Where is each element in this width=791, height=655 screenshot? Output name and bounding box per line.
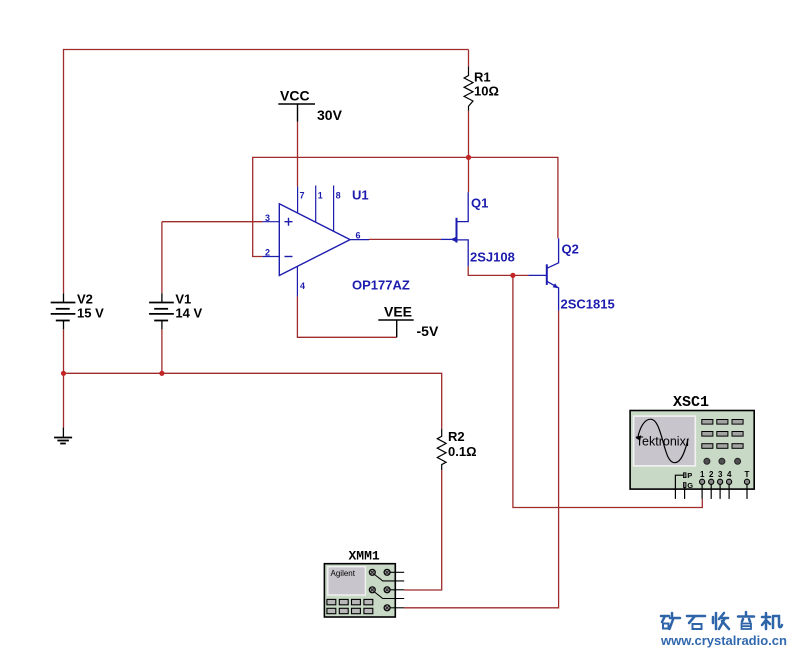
svg-text:XMM1: XMM1 [349, 549, 380, 564]
svg-text:15 V: 15 V [77, 306, 104, 321]
svg-text:V2: V2 [77, 292, 93, 307]
svg-text:2: 2 [265, 248, 270, 258]
svg-text:1: 1 [318, 191, 323, 201]
svg-text:6: 6 [356, 231, 361, 241]
svg-text:7: 7 [300, 191, 305, 201]
svg-text:Agilent: Agilent [331, 569, 356, 578]
svg-text:2SC1815: 2SC1815 [561, 297, 615, 312]
svg-text:V1: V1 [175, 292, 191, 307]
svg-text:Q1: Q1 [471, 196, 488, 211]
svg-text:3: 3 [718, 470, 723, 479]
svg-text:-5V: -5V [417, 323, 439, 339]
svg-text:U1: U1 [352, 188, 369, 203]
svg-text:2SJ108: 2SJ108 [470, 250, 515, 265]
svg-text:VEE: VEE [384, 304, 412, 320]
svg-text:R2: R2 [448, 429, 465, 444]
svg-text:8: 8 [336, 191, 341, 201]
svg-text:30V: 30V [317, 107, 343, 123]
svg-text:2: 2 [709, 470, 714, 479]
svg-text:3: 3 [265, 213, 270, 223]
svg-text:www.crystalradio.cn: www.crystalradio.cn [660, 633, 787, 648]
svg-text:T: T [745, 470, 750, 479]
svg-text:R1: R1 [474, 70, 491, 85]
svg-text:Tektronix: Tektronix [636, 435, 687, 449]
svg-text:XSC1: XSC1 [673, 394, 709, 411]
svg-text:10Ω: 10Ω [474, 84, 499, 99]
svg-text:4: 4 [300, 281, 305, 291]
svg-text:OP177AZ: OP177AZ [352, 278, 410, 293]
svg-text:VCC: VCC [280, 88, 310, 104]
svg-text:P: P [687, 471, 692, 480]
svg-text:4: 4 [727, 470, 732, 479]
svg-text:G: G [687, 481, 693, 490]
svg-text:Q2: Q2 [562, 242, 579, 257]
svg-text:14 V: 14 V [175, 306, 202, 321]
svg-text:1: 1 [700, 470, 705, 479]
svg-text:0.1Ω: 0.1Ω [448, 444, 477, 459]
